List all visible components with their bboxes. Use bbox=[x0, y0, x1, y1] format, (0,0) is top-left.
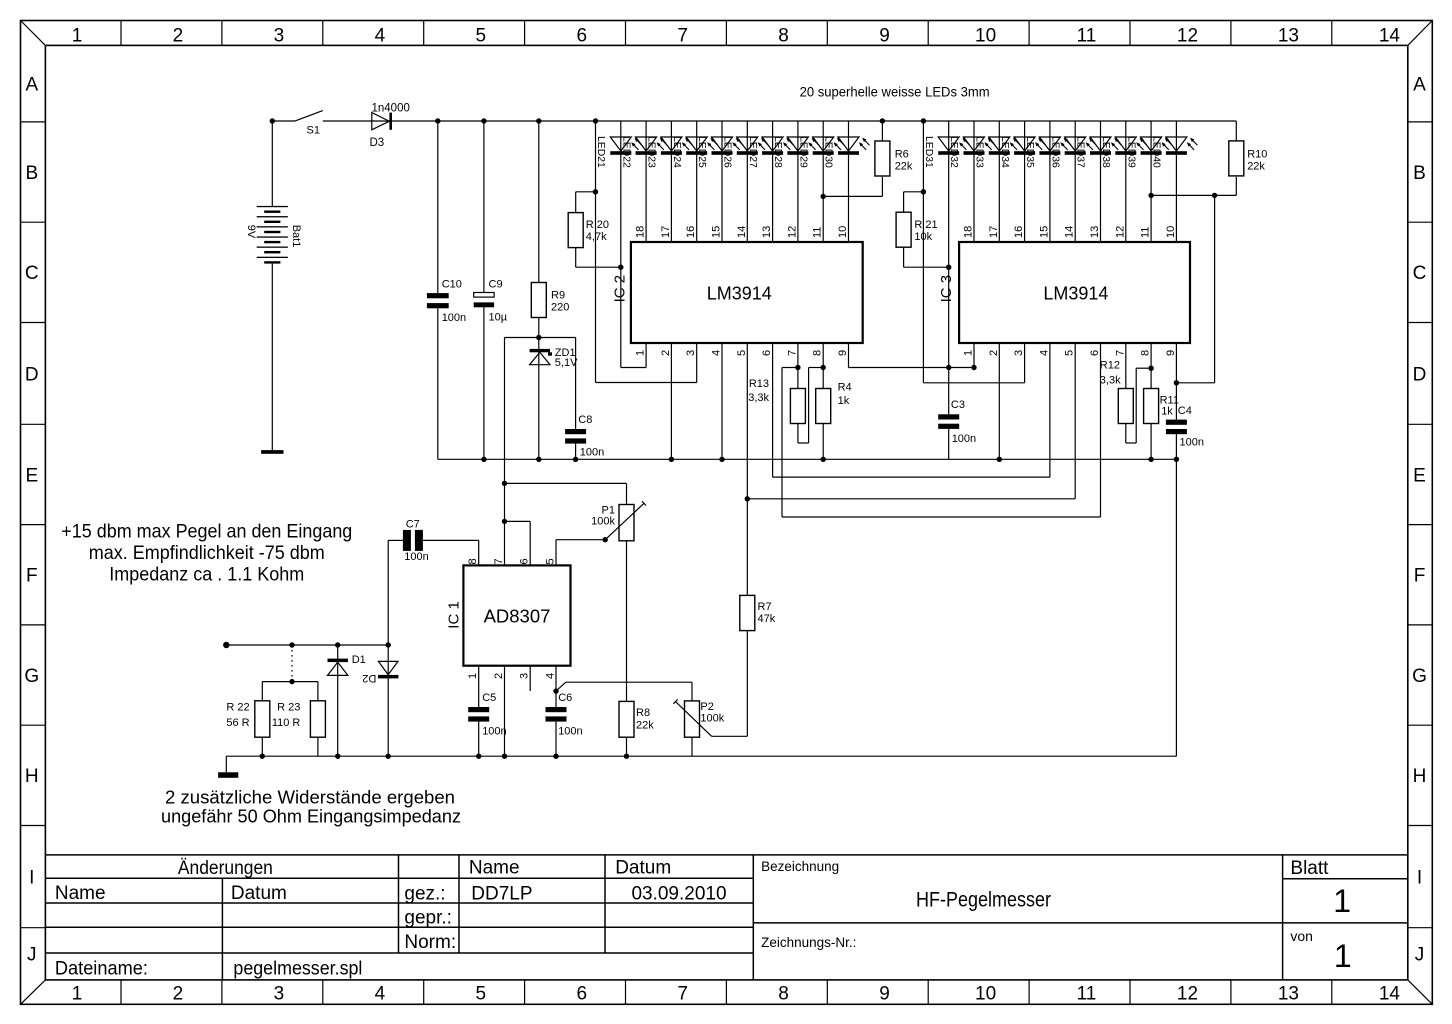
svg-text:7: 7 bbox=[493, 558, 505, 564]
svg-text:3: 3 bbox=[519, 673, 531, 679]
svg-text:22k: 22k bbox=[895, 160, 913, 172]
svg-text:100k: 100k bbox=[700, 713, 724, 725]
svg-text:12: 12 bbox=[786, 226, 798, 238]
svg-text:LED26: LED26 bbox=[722, 136, 733, 168]
svg-text:100n: 100n bbox=[404, 551, 428, 563]
svg-text:100n: 100n bbox=[952, 433, 976, 445]
svg-text:R 21: R 21 bbox=[914, 219, 937, 231]
svg-text:6: 6 bbox=[1089, 350, 1101, 356]
svg-text:13: 13 bbox=[1278, 26, 1299, 47]
svg-text:E: E bbox=[1413, 465, 1426, 486]
svg-text:Datum: Datum bbox=[615, 858, 671, 879]
svg-text:3: 3 bbox=[1013, 350, 1025, 356]
svg-text:5: 5 bbox=[545, 558, 557, 564]
svg-text:AD8307: AD8307 bbox=[484, 606, 551, 627]
svg-text:12: 12 bbox=[1114, 226, 1126, 238]
svg-text:LED27: LED27 bbox=[747, 136, 758, 168]
svg-text:A: A bbox=[1413, 75, 1426, 96]
svg-text:Name: Name bbox=[55, 883, 106, 904]
svg-text:Blatt: Blatt bbox=[1290, 858, 1329, 879]
svg-text:9V: 9V bbox=[245, 225, 257, 239]
svg-text:LED39: LED39 bbox=[1125, 136, 1136, 168]
svg-text:LED22: LED22 bbox=[620, 136, 631, 168]
svg-text:03.09.2010: 03.09.2010 bbox=[631, 883, 726, 904]
svg-text:4: 4 bbox=[1038, 350, 1050, 356]
svg-text:3: 3 bbox=[274, 26, 285, 47]
svg-text:7: 7 bbox=[1114, 350, 1126, 356]
svg-text:LED31: LED31 bbox=[923, 136, 934, 168]
svg-text:Impedanz ca . 1.1 Kohm: Impedanz ca . 1.1 Kohm bbox=[109, 564, 304, 586]
svg-text:ungefähr 50 Ohm Eingangsimpeda: ungefähr 50 Ohm Eingangsimpedanz bbox=[161, 806, 461, 827]
svg-text:10: 10 bbox=[975, 983, 996, 1004]
svg-text:IC 1: IC 1 bbox=[446, 601, 463, 629]
svg-text:9: 9 bbox=[837, 350, 849, 356]
svg-text:4: 4 bbox=[545, 673, 557, 679]
svg-text:C: C bbox=[25, 263, 39, 284]
svg-text:C4: C4 bbox=[1178, 405, 1192, 417]
svg-text:14: 14 bbox=[1379, 26, 1401, 47]
svg-text:8: 8 bbox=[778, 983, 789, 1004]
svg-text:9: 9 bbox=[879, 983, 890, 1004]
svg-text:2: 2 bbox=[988, 350, 1000, 356]
svg-text:8: 8 bbox=[812, 350, 824, 356]
svg-text:4: 4 bbox=[375, 983, 386, 1004]
svg-text:1: 1 bbox=[963, 350, 975, 356]
svg-text:pegelmesser.spl: pegelmesser.spl bbox=[233, 958, 362, 979]
svg-text:8: 8 bbox=[1140, 350, 1152, 356]
svg-text:+15 dbm max Pegel an den Einga: +15 dbm max Pegel an den Eingang bbox=[61, 521, 352, 543]
svg-text:7: 7 bbox=[677, 983, 688, 1004]
svg-text:LED30: LED30 bbox=[823, 136, 834, 168]
svg-text:220: 220 bbox=[551, 302, 569, 314]
svg-text:5: 5 bbox=[736, 350, 748, 356]
svg-text:3,3k: 3,3k bbox=[1100, 374, 1121, 386]
svg-text:5: 5 bbox=[1064, 350, 1076, 356]
svg-text:9: 9 bbox=[1165, 350, 1177, 356]
svg-text:DD7LP: DD7LP bbox=[471, 883, 532, 904]
svg-text:gepr.:: gepr.: bbox=[404, 907, 452, 928]
svg-text:110 R: 110 R bbox=[272, 717, 301, 729]
svg-text:5,1V: 5,1V bbox=[555, 357, 578, 369]
svg-text:Bat1: Bat1 bbox=[290, 225, 302, 248]
svg-text:C10: C10 bbox=[442, 279, 462, 291]
svg-text:14: 14 bbox=[736, 226, 748, 238]
svg-text:IC 2: IC 2 bbox=[611, 275, 628, 303]
svg-text:18: 18 bbox=[635, 226, 647, 238]
svg-text:6: 6 bbox=[761, 350, 773, 356]
svg-text:LED34: LED34 bbox=[999, 136, 1010, 168]
svg-text:6: 6 bbox=[519, 558, 531, 564]
svg-text:6: 6 bbox=[577, 26, 588, 47]
svg-text:R7: R7 bbox=[758, 601, 772, 613]
svg-text:gez.:: gez.: bbox=[404, 883, 445, 904]
svg-text:14: 14 bbox=[1379, 983, 1401, 1004]
svg-text:1: 1 bbox=[467, 673, 479, 679]
svg-text:LM3914: LM3914 bbox=[1043, 283, 1108, 303]
svg-text:17: 17 bbox=[660, 226, 672, 238]
svg-text:11: 11 bbox=[1077, 26, 1097, 47]
svg-text:D1: D1 bbox=[352, 654, 366, 666]
svg-text:LED35: LED35 bbox=[1024, 136, 1035, 168]
svg-text:LED40: LED40 bbox=[1151, 136, 1162, 168]
svg-text:Datum: Datum bbox=[231, 883, 287, 904]
svg-text:10µ: 10µ bbox=[489, 312, 508, 324]
svg-text:10: 10 bbox=[975, 26, 996, 47]
svg-text:D3: D3 bbox=[370, 137, 385, 149]
svg-text:R13: R13 bbox=[749, 378, 769, 390]
svg-text:13: 13 bbox=[761, 226, 773, 238]
svg-text:Name: Name bbox=[469, 858, 520, 879]
svg-text:C9: C9 bbox=[489, 279, 503, 291]
svg-text:R12: R12 bbox=[1100, 359, 1120, 371]
svg-text:H: H bbox=[25, 766, 39, 787]
svg-text:Bezeichnung: Bezeichnung bbox=[761, 859, 839, 874]
svg-text:LED37: LED37 bbox=[1075, 136, 1086, 168]
svg-text:7: 7 bbox=[786, 350, 798, 356]
svg-text:4: 4 bbox=[711, 350, 723, 356]
svg-text:C8: C8 bbox=[578, 414, 592, 426]
svg-text:1n4000: 1n4000 bbox=[372, 103, 410, 115]
svg-text:LED38: LED38 bbox=[1100, 136, 1111, 168]
svg-text:56 R: 56 R bbox=[226, 717, 249, 729]
svg-text:F: F bbox=[26, 566, 38, 587]
svg-text:Dateiname:: Dateiname: bbox=[55, 958, 148, 979]
svg-text:18: 18 bbox=[963, 226, 975, 238]
svg-text:13: 13 bbox=[1278, 983, 1299, 1004]
svg-text:G: G bbox=[24, 666, 39, 687]
svg-text:IC 3: IC 3 bbox=[938, 275, 955, 303]
svg-text:Änderungen: Änderungen bbox=[178, 858, 273, 879]
svg-text:16: 16 bbox=[685, 226, 697, 238]
svg-text:I: I bbox=[1417, 868, 1422, 889]
svg-text:1k: 1k bbox=[838, 395, 850, 407]
svg-text:LED23: LED23 bbox=[646, 136, 657, 168]
svg-text:R4: R4 bbox=[838, 382, 852, 394]
svg-text:LED25: LED25 bbox=[696, 136, 707, 168]
svg-text:1: 1 bbox=[1333, 883, 1351, 919]
svg-text:8: 8 bbox=[778, 26, 789, 47]
svg-text:F: F bbox=[1414, 566, 1426, 587]
svg-text:6: 6 bbox=[577, 983, 588, 1004]
svg-text:11: 11 bbox=[1140, 227, 1152, 238]
svg-text:2: 2 bbox=[660, 350, 672, 356]
svg-text:1: 1 bbox=[1334, 938, 1352, 974]
svg-text:C7: C7 bbox=[406, 518, 420, 530]
svg-text:E: E bbox=[25, 465, 38, 486]
svg-text:B: B bbox=[1413, 163, 1426, 184]
svg-text:C: C bbox=[1413, 263, 1427, 284]
svg-text:R 22: R 22 bbox=[226, 702, 249, 714]
svg-text:4,7k: 4,7k bbox=[586, 231, 607, 243]
svg-text:47k: 47k bbox=[758, 613, 776, 625]
svg-text:1: 1 bbox=[72, 26, 83, 47]
svg-text:HF-Pegelmesser: HF-Pegelmesser bbox=[916, 888, 1051, 911]
svg-text:R10: R10 bbox=[1247, 148, 1267, 160]
svg-text:D2: D2 bbox=[362, 672, 376, 684]
svg-text:12: 12 bbox=[1177, 983, 1198, 1004]
svg-text:11: 11 bbox=[1077, 983, 1097, 1004]
svg-text:LED36: LED36 bbox=[1049, 136, 1060, 168]
svg-text:100n: 100n bbox=[1180, 437, 1204, 449]
svg-text:R 23: R 23 bbox=[277, 702, 300, 714]
svg-text:P2: P2 bbox=[700, 701, 713, 713]
svg-text:10k: 10k bbox=[914, 231, 932, 243]
svg-text:Norm:: Norm: bbox=[404, 932, 456, 953]
svg-text:R 20: R 20 bbox=[586, 219, 609, 231]
svg-text:LED28: LED28 bbox=[772, 136, 783, 168]
svg-text:G: G bbox=[1412, 666, 1427, 687]
svg-text:5: 5 bbox=[476, 26, 487, 47]
svg-text:1k: 1k bbox=[1161, 405, 1173, 417]
svg-text:10: 10 bbox=[837, 226, 849, 238]
svg-text:9: 9 bbox=[879, 26, 890, 47]
svg-text:20 superhelle weisse LEDs 3mm: 20 superhelle weisse LEDs 3mm bbox=[800, 84, 990, 100]
svg-text:2: 2 bbox=[173, 26, 184, 47]
svg-text:LED24: LED24 bbox=[671, 136, 682, 168]
svg-text:100k: 100k bbox=[591, 515, 615, 527]
svg-text:22k: 22k bbox=[636, 719, 654, 731]
svg-text:LM3914: LM3914 bbox=[707, 283, 772, 303]
svg-text:J: J bbox=[1415, 945, 1425, 966]
svg-text:1: 1 bbox=[635, 350, 647, 356]
svg-text:D: D bbox=[25, 364, 39, 385]
svg-text:LED32: LED32 bbox=[948, 136, 959, 168]
svg-text:C6: C6 bbox=[558, 692, 572, 704]
svg-text:100n: 100n bbox=[580, 447, 604, 459]
svg-text:A: A bbox=[25, 75, 38, 96]
svg-text:100n: 100n bbox=[558, 726, 582, 738]
svg-text:10: 10 bbox=[1165, 226, 1177, 238]
svg-text:1: 1 bbox=[72, 983, 83, 1004]
svg-text:100n: 100n bbox=[482, 726, 506, 738]
svg-text:4: 4 bbox=[375, 26, 386, 47]
svg-text:von: von bbox=[1290, 928, 1313, 944]
svg-text:C3: C3 bbox=[951, 399, 965, 411]
svg-text:17: 17 bbox=[988, 226, 1000, 238]
svg-text:D: D bbox=[1413, 364, 1427, 385]
svg-text:15: 15 bbox=[711, 226, 723, 238]
svg-text:2: 2 bbox=[173, 983, 184, 1004]
svg-text:100n: 100n bbox=[442, 312, 466, 324]
svg-text:B: B bbox=[25, 163, 38, 184]
svg-text:12: 12 bbox=[1177, 26, 1198, 47]
svg-text:3: 3 bbox=[685, 350, 697, 356]
svg-text:2: 2 bbox=[493, 673, 505, 679]
svg-text:LED21: LED21 bbox=[595, 136, 606, 168]
svg-text:14: 14 bbox=[1064, 226, 1076, 238]
svg-text:LED29: LED29 bbox=[797, 136, 808, 168]
svg-text:16: 16 bbox=[1013, 226, 1025, 238]
svg-text:7: 7 bbox=[677, 26, 688, 47]
svg-text:I: I bbox=[29, 868, 34, 889]
svg-text:J: J bbox=[27, 945, 37, 966]
svg-text:LED33: LED33 bbox=[974, 136, 985, 168]
svg-text:15: 15 bbox=[1038, 226, 1050, 238]
svg-text:11: 11 bbox=[812, 227, 824, 238]
svg-text:2 zusätzliche Widerstände erge: 2 zusätzliche Widerstände ergeben bbox=[165, 787, 455, 808]
svg-text:R9: R9 bbox=[551, 290, 565, 302]
svg-text:3,3k: 3,3k bbox=[748, 392, 769, 404]
svg-text:C5: C5 bbox=[482, 692, 496, 704]
svg-text:5: 5 bbox=[476, 983, 487, 1004]
svg-text:3: 3 bbox=[274, 983, 285, 1004]
svg-text:22k: 22k bbox=[1247, 160, 1265, 172]
svg-text:max. Empfindlichkeit -75 dbm: max. Empfindlichkeit -75 dbm bbox=[89, 542, 325, 564]
svg-text:H: H bbox=[1413, 766, 1427, 787]
svg-text:S1: S1 bbox=[307, 125, 320, 137]
svg-text:R8: R8 bbox=[636, 707, 650, 719]
svg-text:R6: R6 bbox=[895, 148, 909, 160]
svg-text:13: 13 bbox=[1089, 226, 1101, 238]
svg-text:Zeichnungs-Nr.:: Zeichnungs-Nr.: bbox=[761, 935, 856, 950]
svg-text:8: 8 bbox=[467, 558, 479, 564]
